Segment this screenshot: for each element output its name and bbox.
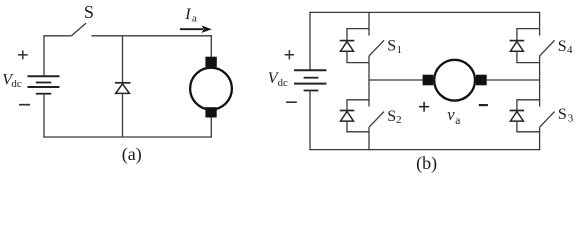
- label + (battery b): [285, 50, 294, 59]
- wire: (a) motor bottom terminal to bottom wire: [210, 117, 212, 137]
- wire: D2 bottom branch: [346, 131, 369, 133]
- switch S2 blade: [369, 112, 384, 128]
- diode D2 triangle: [341, 112, 354, 122]
- wire: (a) left vertical from battery - plate to bottom wire: [43, 94, 45, 138]
- svg-text:S: S: [84, 2, 94, 22]
- battery V_dc (b): short plate 2: [304, 77, 319, 79]
- diode D2 cathode bar: [340, 110, 355, 112]
- svg-text:v: v: [447, 105, 455, 124]
- wire: (a) bottom wire: [43, 136, 212, 138]
- wire: motor rail left (leg junction to left terminal): [369, 79, 423, 81]
- wire: (b) left vertical from top wire to battery + plate: [309, 12, 311, 71]
- svg-text:3: 3: [568, 113, 574, 125]
- diode (a) freewheeling: cathode bar: [115, 82, 131, 84]
- wire: D1 bottom branch: [346, 62, 369, 64]
- diode D1 cathode bar: [340, 40, 355, 42]
- svg-text:dc: dc: [278, 77, 289, 89]
- svg-text:S: S: [558, 38, 567, 55]
- switch S blade (open): [71, 23, 86, 36]
- wire: D1 upper segment: [346, 29, 348, 40]
- motor (a) bottom brush terminal (filled square): [205, 107, 216, 117]
- battery V_dc (a): short plate 4 (-): [36, 93, 51, 95]
- wire: D3 bottom branch: [516, 131, 539, 133]
- wire: (b) bottom wire: [309, 149, 540, 151]
- svg-text:S: S: [387, 108, 396, 125]
- battery V_dc (b): short plate 4 (-): [304, 90, 319, 92]
- motor (b) right brush terminal (filled square): [476, 75, 487, 86]
- wire: left leg from S1 pivot to motor rail junction: [368, 56, 370, 80]
- wire: (a) top wire from switch fixed contact to top-right corner: [92, 35, 212, 37]
- battery V_dc (b): long plate 1 (+): [294, 69, 326, 71]
- svg-text:a: a: [192, 12, 197, 24]
- wire: D1 top branch: [346, 28, 369, 30]
- wire: (a) diode branch upper segment from top wire junction: [122, 36, 124, 82]
- motor (b) left brush terminal (filled square): [423, 75, 434, 86]
- motor (a) top brush terminal (filled square): [205, 57, 216, 67]
- wire: motor rail right (right terminal to right leg junction): [487, 79, 540, 81]
- wire: D4 bottom branch: [516, 62, 539, 64]
- svg-text:I: I: [184, 6, 191, 23]
- svg-text:a: a: [455, 115, 460, 127]
- battery V_dc (b): long plate 3: [294, 83, 326, 85]
- diode D3 triangle: [510, 112, 523, 122]
- battery V_dc (a): short plate 2: [36, 82, 51, 84]
- diode D4 triangle: [510, 42, 523, 52]
- wire: (a) left vertical from top wire to battery + plate: [43, 36, 45, 76]
- svg-text:1: 1: [397, 44, 403, 56]
- wire: right leg from S3 pivot to bottom wire: [539, 127, 541, 150]
- label + (battery a): [18, 50, 28, 59]
- wire: (b) top wire: [309, 11, 540, 13]
- wire: D1 lower segment: [346, 51, 348, 62]
- svg-text:(a): (a): [122, 144, 142, 165]
- wire: (a) right vertical from corner down to motor top terminal: [210, 35, 212, 57]
- wire: D2 upper segment: [346, 100, 348, 110]
- wire: D4 lower segment: [516, 51, 518, 62]
- wire: right leg motor rail to S3 top contact: [539, 80, 541, 107]
- wire: right leg from S4 pivot to motor rail junction: [539, 56, 541, 80]
- wire: D3 top branch: [516, 99, 539, 101]
- svg-text:S: S: [387, 38, 396, 55]
- wire: D4 top branch: [516, 28, 539, 30]
- svg-text:(b): (b): [416, 153, 437, 174]
- switch S3 blade: [540, 112, 555, 128]
- motor (a) circle: [190, 68, 232, 110]
- wire: D3 upper segment: [516, 100, 518, 110]
- switch S1 blade: [369, 40, 384, 56]
- wire: right leg upper stub (top wire to S4 top contact): [539, 12, 541, 36]
- wire: left leg upper stub (top wire to S1 top contact): [368, 12, 370, 36]
- diode (a) triangle (anode, pointing up): [116, 84, 130, 94]
- label - (battery a): [19, 104, 30, 106]
- label - (motor): [479, 104, 488, 106]
- battery V_dc (a): long plate 1 (+): [28, 75, 60, 77]
- svg-text:dc: dc: [11, 78, 22, 90]
- svg-text:2: 2: [396, 114, 402, 126]
- wire: left leg from S2 pivot to bottom wire: [368, 127, 370, 150]
- svg-text:S: S: [558, 106, 567, 123]
- diode D1 triangle: [341, 42, 354, 52]
- switch S4 blade: [540, 40, 555, 56]
- diode D4 cathode bar: [510, 40, 525, 42]
- svg-text:4: 4: [567, 44, 573, 56]
- label - (battery b): [286, 101, 297, 103]
- label + (motor): [419, 102, 429, 112]
- wire: D4 upper segment: [516, 29, 518, 40]
- wire: left leg motor rail to S2 top contact: [368, 80, 370, 107]
- wire: D2 lower segment: [346, 121, 348, 132]
- motor (b) circle: [434, 60, 475, 101]
- wire: D3 lower segment: [516, 121, 518, 132]
- current arrow I_a: [180, 26, 212, 33]
- wire: (a) diode branch lower segment to bottom wire: [122, 93, 124, 137]
- wire: (b) left vertical from battery - plate to bottom wire: [309, 91, 311, 151]
- wire: D2 top branch: [346, 99, 369, 101]
- battery V_dc (a): long plate 3: [28, 86, 60, 88]
- wire: (a) top wire from left corner to switch pivot: [43, 35, 71, 37]
- diode D3 cathode bar: [510, 110, 525, 112]
